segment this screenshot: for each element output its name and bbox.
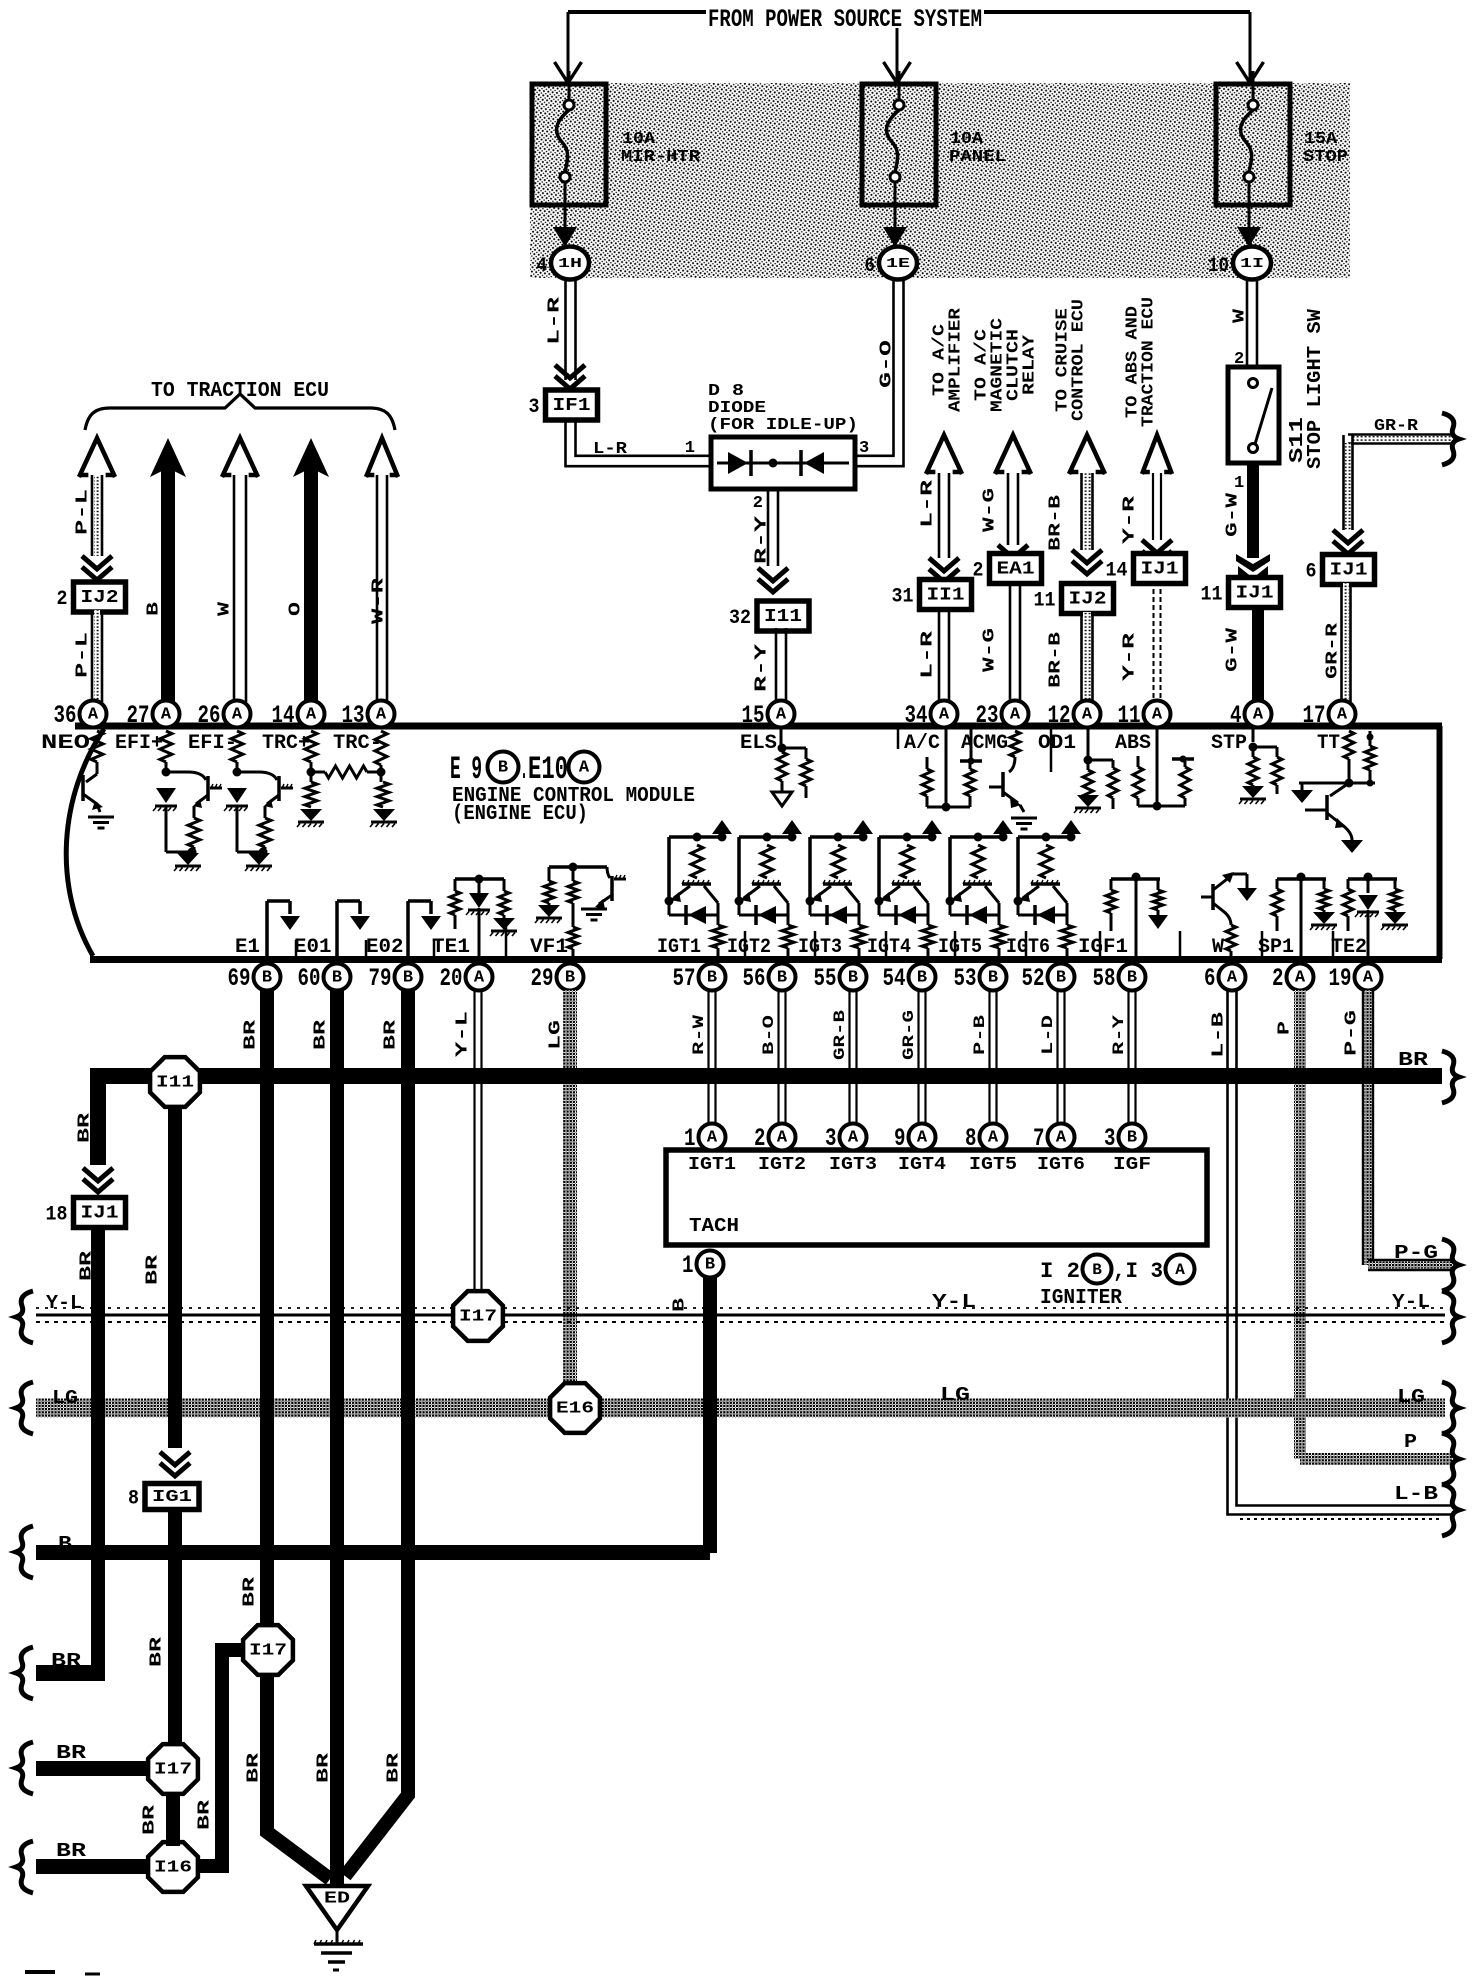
wire G-W from switch to IJ1: [1247, 463, 1259, 558]
svg-text:I17: I17: [459, 1308, 497, 1327]
svg-text:B: B: [1056, 969, 1066, 988]
divider E1/E01: [295, 940, 298, 959]
diode to ground branch: [227, 788, 247, 803]
svg-text:6: 6: [1204, 964, 1216, 993]
wire L-D ECU to igniter: [1056, 990, 1058, 1124]
fuse 15A STOP: [1216, 84, 1290, 205]
ELS internal circuit: [780, 728, 783, 744]
ECU pin 26 (A): [224, 701, 251, 728]
E1 ground hook: [265, 901, 269, 959]
svg-text:TRC+: TRC+: [262, 732, 310, 755]
junction E16 on LG: [550, 1383, 600, 1433]
resistor under NEO pin: [91, 731, 103, 762]
svg-text:LG: LG: [52, 1387, 78, 1409]
svg-text:,I 3: ,I 3: [1113, 1259, 1163, 1284]
ECU pin 29 (B): [557, 964, 584, 991]
diode IGT3: [810, 914, 859, 917]
svg-text:B: B: [1127, 1129, 1137, 1148]
svg-text:L-D: L-D: [1039, 1015, 1057, 1055]
svg-text:OD1: OD1: [1038, 732, 1076, 755]
svg-text:IGT4: IGT4: [898, 1155, 946, 1175]
continuation BR right: [1442, 1051, 1459, 1103]
svg-text:15A: 15A: [1304, 130, 1338, 149]
E01 ground hook: [335, 901, 339, 959]
svg-text:A: A: [1175, 1261, 1185, 1279]
ECU pin 23 (A): [1002, 701, 1029, 728]
svg-text:E1: E1: [235, 936, 260, 959]
svg-text:4: 4: [537, 255, 548, 278]
svg-text:B: B: [565, 969, 575, 988]
svg-text:Y-L: Y-L: [1392, 1291, 1430, 1313]
svg-text:BR-B: BR-B: [1047, 632, 1066, 688]
svg-text:A: A: [1010, 706, 1021, 725]
wire arrow to cruise control ECU: [1069, 435, 1105, 474]
svg-text:56: 56: [743, 964, 766, 993]
IGT4 internal circuit: [879, 835, 932, 839]
wire fuse3 to connector 1I: [1248, 205, 1251, 240]
igniter pin 1 (B) TACH: [697, 1251, 724, 1278]
svg-text:1H: 1H: [558, 256, 582, 272]
svg-text:A: A: [917, 1129, 928, 1148]
svg-text:55: 55: [814, 964, 837, 993]
wire P from ECU pin 2: [1294, 990, 1306, 1459]
continuation P-G right: [1442, 1239, 1459, 1291]
brace: [85, 394, 395, 430]
svg-text:BR: BR: [315, 1752, 334, 1783]
svg-text:I17: I17: [249, 1642, 287, 1661]
diode IGT6: [1018, 914, 1067, 917]
svg-text:B: B: [262, 969, 272, 988]
continuation GR-R right: [1442, 413, 1459, 465]
ground NEO: [88, 816, 114, 819]
svg-text:BR: BR: [241, 1576, 260, 1607]
svg-text:IJ2: IJ2: [81, 588, 119, 608]
igniter box I2 I3: [666, 1150, 1207, 1245]
svg-text:53: 53: [954, 964, 977, 993]
svg-text:B: B: [705, 1256, 715, 1275]
wire B horizontal bus: [36, 1545, 710, 1560]
wire W from 1I to stop light switch: [1246, 279, 1249, 367]
OD1 internal circuit: [1087, 728, 1090, 756]
svg-text:IJ1: IJ1: [1236, 584, 1274, 604]
arrow terminal TT left: [1291, 790, 1313, 803]
svg-text:TE1: TE1: [432, 936, 470, 959]
svg-text:IJ1: IJ1: [81, 1204, 119, 1224]
connector 1E pin 6: [879, 247, 917, 280]
connector IJ1 pin 6: [1323, 555, 1375, 585]
wire P-G from ECU pin 19: [1362, 990, 1364, 1265]
svg-text:Y-L: Y-L: [932, 1291, 976, 1313]
svg-text:G-O: G-O: [878, 340, 897, 388]
svg-text:I16: I16: [154, 1859, 192, 1878]
arrow into II1: [929, 558, 959, 571]
ECU pin 55 (B): [840, 964, 867, 991]
svg-text:A: A: [848, 1129, 859, 1148]
svg-text:B: B: [58, 1533, 72, 1555]
wire P-L from IJ2 to ECU pin 36: [91, 610, 94, 702]
arrow into IG1: [160, 1452, 190, 1465]
arrow into IJ1 18: [83, 1168, 113, 1181]
svg-text:GR-B: GR-B: [831, 1009, 849, 1060]
svg-text:34: 34: [905, 701, 928, 730]
transistor: [237, 771, 259, 774]
divider IGF1/W: [1179, 931, 1182, 959]
svg-text:BR: BR: [385, 1752, 404, 1783]
svg-text:L-B: L-B: [1394, 1483, 1438, 1505]
svg-text:BR: BR: [56, 1742, 87, 1764]
wire arrow B to traction ECU: [150, 438, 186, 477]
svg-text:P-L: P-L: [74, 489, 93, 535]
svg-text:EFI-: EFI-: [188, 732, 237, 755]
svg-text:B: B: [671, 1298, 690, 1312]
svg-text:20: 20: [440, 964, 463, 993]
wire BR diagonal from I17mid to ED: [267, 1674, 330, 1879]
svg-text:IGF: IGF: [1113, 1155, 1151, 1175]
TRC+ internal circuit: [305, 731, 317, 762]
IGT5 internal circuit: [950, 835, 1003, 839]
svg-text:R-Y: R-Y: [1110, 1014, 1128, 1055]
svg-text:BR: BR: [245, 1752, 264, 1783]
wire GR-R down to IJ1: [1342, 435, 1345, 530]
diode IGT1: [669, 914, 718, 917]
fuse 10A MIR-HTR: [532, 84, 606, 205]
svg-text:IGT2: IGT2: [727, 936, 771, 959]
arrow into IJ1 abs: [1142, 540, 1172, 553]
wire FROM POWER SOURCE header line right: [984, 10, 1250, 14]
wire BR diagonal from E02 to ED: [345, 1780, 408, 1876]
svg-text:P: P: [1276, 1021, 1295, 1035]
svg-text:10A: 10A: [950, 130, 984, 149]
svg-text:PANEL: PANEL: [949, 148, 1006, 167]
svg-text:3: 3: [859, 439, 869, 458]
svg-text:A: A: [306, 706, 317, 725]
svg-text:A: A: [1363, 969, 1374, 988]
wire GR-G ECU to igniter: [917, 990, 919, 1124]
continuation BR I17 left: [16, 1742, 33, 1794]
svg-text:9: 9: [894, 1124, 906, 1153]
svg-text:BR: BR: [312, 1019, 331, 1050]
svg-text:B: B: [707, 969, 717, 988]
svg-text:P-L: P-L: [74, 632, 93, 678]
svg-text:TE2: TE2: [1331, 936, 1367, 959]
shield ground ELS: [772, 792, 792, 806]
svg-text:12: 12: [1048, 701, 1071, 730]
transistor IGT2: [752, 882, 781, 886]
wire arrow W-R to traction ECU: [366, 438, 398, 477]
divider ACMG/OD1: [1050, 729, 1053, 772]
connector II1 pin 31: [920, 580, 972, 610]
wire I16 left exit: [36, 1859, 149, 1874]
arrow into IJ1 tt: [1333, 530, 1363, 543]
svg-text:BR: BR: [141, 1804, 160, 1835]
TE1 internal circuit: [475, 875, 484, 884]
svg-text:(ENGINE ECU): (ENGINE ECU): [452, 803, 588, 826]
svg-text:RELAY: RELAY: [1021, 334, 1040, 395]
diode IGT2: [739, 914, 788, 917]
svg-text:G-W: G-W: [1224, 627, 1243, 672]
wire R-W ECU to igniter: [707, 990, 709, 1124]
gray fuse-block halftone band: [530, 83, 1350, 278]
svg-text:A: A: [777, 1129, 788, 1148]
svg-text:A: A: [161, 706, 172, 725]
svg-text:7: 7: [1033, 1124, 1045, 1153]
wire BR-B from IJ2 to ECU pin 12: [1080, 612, 1083, 702]
connector I11 pin 32: [757, 601, 809, 631]
svg-text:W-G: W-G: [981, 628, 1000, 672]
svg-text:LG: LG: [547, 1020, 566, 1050]
igniter pin 9 (A): [909, 1124, 936, 1151]
svg-text:E02: E02: [366, 936, 404, 959]
IGT6 internal circuit: [1018, 835, 1071, 839]
wire P-B ECU to igniter: [988, 990, 990, 1124]
W internal transistor circuit: [1211, 884, 1215, 910]
svg-text:IGT2: IGT2: [758, 1155, 806, 1175]
emitter resistor: [188, 818, 200, 847]
wire arrow to A/C amplifier: [926, 435, 962, 474]
igniter pin 3 (B): [1119, 1124, 1146, 1151]
svg-text:Y-R: Y-R: [1121, 632, 1140, 681]
svg-text:IGT1: IGT1: [688, 1155, 736, 1175]
connector IJ2 pin 2: [74, 582, 126, 612]
connector 1H pin 4: [551, 247, 589, 280]
fuse 10A PANEL: [862, 84, 936, 205]
svg-text:17: 17: [1303, 701, 1326, 730]
svg-text:EA1: EA1: [997, 560, 1035, 580]
svg-text:NEO: NEO: [41, 732, 90, 755]
svg-text:IGT6: IGT6: [1006, 936, 1050, 959]
svg-text:BR: BR: [78, 1250, 97, 1281]
svg-text:4: 4: [1230, 701, 1242, 730]
wire arrow O to traction ECU: [293, 438, 329, 477]
svg-text:A: A: [1082, 706, 1093, 725]
junction I17 mid: [243, 1625, 293, 1675]
svg-text:A: A: [1056, 1129, 1067, 1148]
page corner marks: [25, 1970, 55, 1974]
svg-text:10A: 10A: [622, 130, 656, 149]
svg-text:14: 14: [272, 701, 295, 730]
svg-text:IGT3: IGT3: [829, 1155, 877, 1175]
wire drop to fuse 3: [1249, 12, 1252, 96]
svg-text:1: 1: [685, 439, 695, 458]
ground ACMG: [1011, 817, 1037, 820]
wire LG horizontal bus: [36, 1399, 1445, 1418]
connector IG1 pin 8: [145, 1484, 199, 1510]
wire arrow to A/C magnetic clutch relay: [995, 435, 1031, 474]
svg-text:SP1: SP1: [1258, 936, 1294, 959]
svg-text:IGF1: IGF1: [1078, 936, 1128, 959]
svg-text:BR: BR: [51, 1650, 82, 1672]
svg-text:1: 1: [1234, 474, 1244, 493]
svg-text:ELS: ELS: [740, 732, 777, 755]
svg-text:A: A: [939, 706, 950, 725]
svg-text:69: 69: [228, 964, 251, 993]
IGT2 supply arrow: [782, 820, 802, 834]
divider E01/E02: [365, 940, 368, 959]
svg-text:60: 60: [298, 964, 321, 993]
svg-text:I11: I11: [156, 1074, 194, 1093]
svg-text:1E: 1E: [886, 256, 910, 272]
svg-text:A: A: [579, 759, 590, 778]
ECU pin 6 (A): [1219, 964, 1246, 991]
svg-text:FROM POWER SOURCE SYSTEM: FROM POWER SOURCE SYSTEM: [708, 5, 982, 34]
svg-text:1: 1: [682, 1251, 694, 1280]
ECU pin 17 (A): [1329, 701, 1356, 728]
svg-text:11: 11: [1201, 584, 1223, 607]
wire GR-R from right edge: [1348, 433, 1452, 436]
svg-text:6: 6: [1306, 561, 1317, 584]
ECU pin 58 (B): [1119, 964, 1146, 991]
ECU pin 57 (B): [699, 964, 726, 991]
continuation B left: [16, 1526, 33, 1578]
wire I17mid left-down to I16: [198, 1650, 243, 1866]
svg-text:26: 26: [198, 701, 221, 730]
svg-text:ACMG: ACMG: [961, 732, 1008, 755]
connector IJ1 pin 14: [1134, 554, 1186, 584]
ECU pin 19 (A): [1355, 964, 1382, 991]
TE2 internal circuit: [1364, 873, 1373, 882]
svg-text:BR: BR: [382, 1019, 401, 1050]
svg-text:10: 10: [1208, 255, 1229, 278]
svg-text:R-Y: R-Y: [753, 515, 772, 564]
svg-text:ABS: ABS: [1115, 732, 1151, 755]
svg-text:A: A: [988, 1129, 999, 1148]
svg-text:A: A: [376, 706, 387, 725]
connector IJ2 pin 11: [1062, 584, 1114, 614]
wire G-W from IJ1 to ECU pin 4: [1252, 606, 1264, 702]
transistor IGT1: [682, 882, 711, 886]
svg-text:W: W: [1231, 308, 1250, 323]
svg-text:I17: I17: [154, 1761, 192, 1780]
igniter pin 8 (A): [980, 1124, 1007, 1151]
svg-text:P-G: P-G: [1343, 1010, 1362, 1056]
wire R-Y from diode pin 2: [767, 489, 770, 566]
svg-text:B: B: [332, 969, 342, 988]
wire BR from ECU pin 69 down to I17: [260, 990, 274, 1626]
svg-text:A: A: [232, 706, 243, 725]
continuation BR I16 left: [16, 1841, 33, 1893]
IGT3 internal circuit: [810, 835, 863, 839]
wire BR from ECU pin 60 down to ED: [330, 990, 344, 1886]
svg-text:2: 2: [57, 588, 68, 611]
svg-text:ED: ED: [324, 1890, 350, 1909]
wire L-R from 1H down: [564, 279, 567, 380]
ground arrow: [248, 853, 270, 865]
svg-text:G-W: G-W: [1224, 492, 1243, 537]
svg-text:B: B: [1092, 1261, 1102, 1279]
wire arrow to ABS and traction ECU: [1142, 435, 1172, 474]
svg-text:TRACTION ECU: TRACTION ECU: [1140, 297, 1159, 427]
svg-text:3: 3: [825, 1124, 837, 1153]
connector IF1 pin 3: [546, 390, 598, 420]
emitter resistor: [259, 818, 271, 847]
transistor: [166, 771, 188, 774]
IGT1 supply arrow: [712, 820, 732, 834]
svg-text:I11: I11: [764, 607, 802, 627]
svg-text:L-B: L-B: [1210, 1012, 1229, 1058]
svg-text:A: A: [1253, 706, 1264, 725]
wire arrow W to traction ECU: [222, 438, 258, 477]
igniter pin 1 (A): [699, 1124, 726, 1151]
ECU pin 15 (A): [768, 701, 795, 728]
svg-text:31: 31: [892, 586, 914, 609]
connector 1I pin 10: [1233, 247, 1271, 280]
ECU pin 34 (A): [931, 701, 958, 728]
svg-text:13: 13: [342, 701, 365, 730]
ECU pin 11 (A): [1144, 701, 1171, 728]
SP1 internal circuit: [1297, 873, 1306, 882]
wire I17 bottom to I16: [166, 1794, 180, 1846]
svg-text:A: A: [776, 706, 787, 725]
svg-text:O: O: [287, 602, 306, 616]
STP internal circuit: [1252, 728, 1255, 742]
divider SP1/TE2: [1332, 931, 1335, 959]
svg-text:11: 11: [1118, 701, 1141, 730]
svg-text:L-R: L-R: [593, 440, 628, 459]
connector IJ1 pin 11 stp: [1229, 578, 1281, 608]
junction I16: [148, 1842, 198, 1892]
svg-text:2: 2: [754, 1124, 766, 1153]
IGT4 supply arrow: [922, 820, 942, 834]
wire L-B from ECU pin 6: [1228, 990, 1453, 1515]
junction I17 on Y-L: [453, 1291, 503, 1341]
transistor IGT4: [892, 882, 921, 886]
svg-text:11: 11: [1034, 590, 1056, 613]
svg-text:BR: BR: [56, 1840, 87, 1862]
svg-text:W-R: W-R: [370, 577, 389, 624]
wire drop to fuse 1: [567, 12, 570, 96]
wire BR to left edge: [36, 1665, 105, 1681]
junction dot: [162, 768, 171, 777]
svg-text:BR: BR: [144, 1254, 163, 1285]
svg-text:GR-R: GR-R: [1324, 622, 1343, 679]
svg-text:LG: LG: [940, 1384, 970, 1406]
wire BR left corner down to IJ1: [90, 1068, 106, 1165]
svg-text:A: A: [1295, 969, 1306, 988]
wire GR-B ECU to igniter: [848, 990, 850, 1124]
ECU pin 54 (B): [909, 964, 936, 991]
svg-text:IF1: IF1: [553, 396, 591, 416]
wire G-O from 1E down to diode pin 3: [855, 279, 894, 456]
arrow into IJ1 stp: [1238, 566, 1268, 587]
wire Y-L from ECU pin 20 to I17: [473, 990, 475, 1294]
ECU pin 2 (A): [1287, 964, 1314, 991]
svg-text:B: B: [498, 759, 508, 778]
transistor TT: [1330, 783, 1349, 796]
svg-text:BR: BR: [1398, 1049, 1429, 1071]
transistor NEO: [96, 762, 99, 774]
transistor IGT5: [963, 882, 992, 886]
ACMG internal circuit: [1010, 731, 1020, 757]
wire FROM POWER SOURCE header line left: [568, 10, 706, 14]
svg-text:BR: BR: [76, 1112, 95, 1143]
svg-text:14: 14: [1106, 560, 1128, 583]
diode IGT5: [950, 914, 999, 917]
svg-text:IJ1: IJ1: [1141, 560, 1179, 580]
svg-text:2: 2: [753, 494, 763, 513]
svg-text:Y-L: Y-L: [46, 1292, 82, 1314]
wire GR-R from IJ1 to ECU pin 17: [1340, 583, 1343, 702]
arrow into IF1: [555, 365, 585, 378]
ECU pin 52 (B): [1048, 964, 1075, 991]
svg-text:6: 6: [865, 255, 876, 278]
junction dot: [233, 768, 242, 777]
svg-text:W: W: [216, 601, 235, 616]
ABS internal circuit: [1156, 728, 1159, 806]
IGT5 supply arrow: [993, 820, 1013, 834]
divider W/SP1: [1261, 931, 1264, 959]
arrow terminal TT emitter: [1341, 840, 1363, 853]
svg-text:A: A: [88, 706, 99, 725]
